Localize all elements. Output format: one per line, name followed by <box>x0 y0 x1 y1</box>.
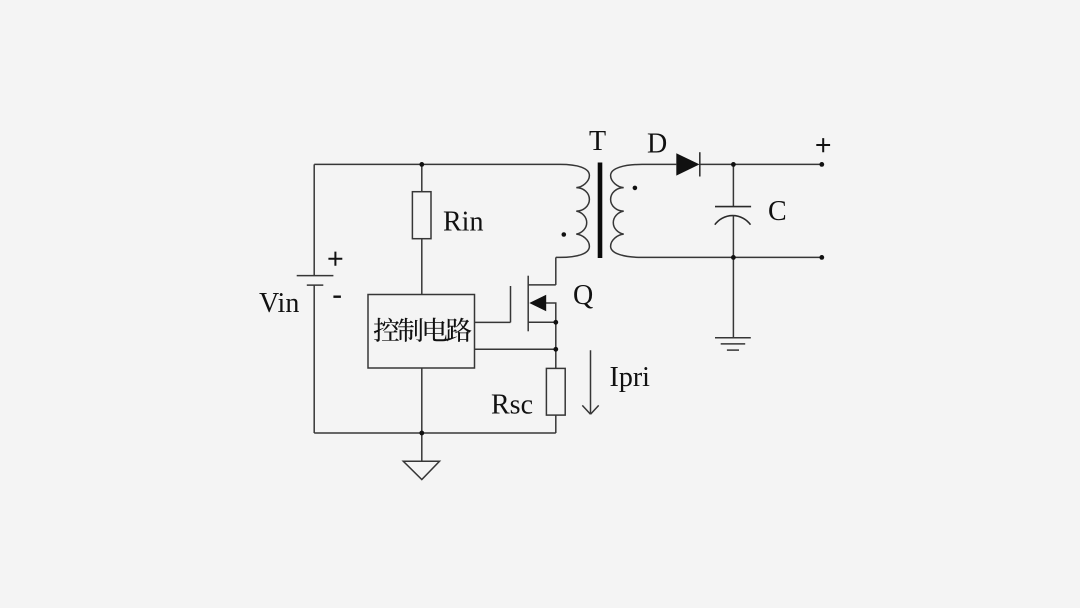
junction node diode/capacitor <box>731 162 736 167</box>
junction node feedback <box>553 347 558 352</box>
transformer T secondary winding <box>611 164 642 257</box>
wire source lead <box>528 321 556 323</box>
resistor Rsc body <box>546 368 565 415</box>
transformer primary phase dot <box>562 232 567 237</box>
label battery minus <box>333 296 341 298</box>
wire left vertical (Vin branch lower) <box>313 285 315 433</box>
svg-text:Rsc: Rsc <box>491 390 533 421</box>
wire capacitor top lead <box>732 164 734 206</box>
junction node capacitor bottom <box>731 255 736 260</box>
resistor Rin body <box>412 192 431 239</box>
battery V1 long plate <box>297 275 334 277</box>
transformer T primary winding <box>556 164 590 257</box>
svg-text:T: T <box>589 126 606 157</box>
ground G2 line 2 <box>721 343 746 345</box>
svg-text:Q: Q <box>573 280 593 311</box>
wire bottom rail <box>314 432 556 434</box>
svg-text:C: C <box>768 196 787 227</box>
battery V1 short plate <box>307 284 324 286</box>
wire Rin top lead <box>421 164 423 191</box>
wire drain lead <box>528 284 556 286</box>
wire gate lead <box>475 321 511 323</box>
wire control box bottom lead <box>421 368 423 433</box>
label battery plus <box>328 252 342 266</box>
wire Rsc bottom lead <box>555 415 557 433</box>
current arrow Ipri <box>582 350 598 414</box>
svg-text:Rin: Rin <box>443 207 483 238</box>
junction node top rail / Rin <box>419 162 424 167</box>
wire capacitor bottom lead <box>732 215 734 257</box>
diode D triangle <box>676 153 699 175</box>
diode D cathode bar <box>699 152 701 176</box>
label output plus <box>816 138 830 152</box>
transistor Q1 channel bar <box>527 276 529 332</box>
wire diode to + terminal <box>700 163 822 165</box>
wire source to feedback node <box>555 322 557 349</box>
transformer secondary phase dot <box>633 186 638 191</box>
wire secondary top to diode <box>642 163 676 165</box>
wire capacitor to ground <box>732 257 734 337</box>
terminal node - output <box>819 255 824 260</box>
ground G2 line 1 <box>715 337 751 339</box>
svg-text:Ipri: Ipri <box>610 362 651 393</box>
svg-text:D: D <box>647 128 667 159</box>
wire body lead to source <box>546 303 556 322</box>
ground G2 line 3 <box>727 349 739 351</box>
transistor Q1 body arrow <box>529 295 546 311</box>
wire drain vertical to transformer <box>555 257 557 285</box>
wire left vertical (Vin branch upper) <box>313 164 315 275</box>
wire ground stub <box>421 433 423 461</box>
capacitor C curved plate <box>715 216 751 225</box>
junction node bottom rail / ground <box>419 431 424 436</box>
transformer T core bar <box>598 163 603 259</box>
label control circuit text <box>374 318 472 342</box>
wire feedback lead from control box <box>475 348 556 350</box>
ground (open triangle) <box>403 461 439 479</box>
capacitor C top plate <box>715 206 751 208</box>
terminal node + output <box>819 162 824 167</box>
wire Rin bottom lead <box>421 239 423 295</box>
svg-text:Vin: Vin <box>259 288 299 319</box>
wire secondary bottom rail <box>642 256 822 258</box>
junction node source <box>553 320 558 325</box>
wire top rail <box>314 163 560 165</box>
transistor Q1 gate bar <box>510 286 512 322</box>
control circuit box U1 <box>368 295 475 369</box>
wire feedback node to Rsc <box>555 349 557 368</box>
